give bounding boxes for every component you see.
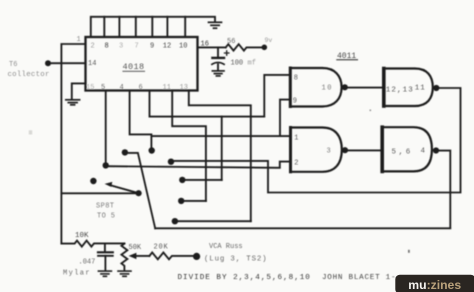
svg-text:1: 1 [294, 135, 298, 143]
IC bottom pin labels 15 5 4 6 11 13 [86, 84, 188, 92]
node switch contact 4 [168, 159, 174, 165]
svg-text:4: 4 [120, 84, 124, 92]
wire U2a output to U2b input [345, 87, 384, 89]
svg-text:12,13: 12,13 [386, 87, 414, 95]
op... gate U2a NAND body [290, 68, 341, 107]
ground symbol below C2 [98, 271, 111, 276]
label 20K [154, 244, 169, 252]
node gate U2d output junction [433, 147, 439, 153]
wire pin 11 to switch contact 6 [172, 91, 206, 201]
svg-text:DIVIDE BY 2,3,4,5,6,8,10: DIVIDE BY 2,3,4,5,6,8,10 [178, 274, 311, 282]
svg-text:TO 5: TO 5 [97, 213, 115, 221]
label SP8T TO 5 [96, 203, 115, 221]
label JOHN BLACET 1- [322, 274, 396, 282]
svg-text:2: 2 [294, 160, 298, 168]
svg-text:13: 13 [180, 84, 188, 92]
svg-text:8: 8 [105, 43, 109, 51]
svg-text:12: 12 [163, 43, 171, 51]
node switch wiper hub [90, 178, 96, 184]
svg-text:20K: 20K [154, 244, 169, 252]
wire pin 16 to resistor [198, 46, 226, 48]
svg-text:4: 4 [421, 148, 426, 156]
svg-text:JOHN BLACET 1-: JOHN BLACET 1- [322, 274, 396, 282]
stray scan marks left edge [29, 130, 32, 134]
potentiometer R3 50K [121, 244, 127, 271]
plus sign of C1 [225, 51, 229, 55]
label 10K [75, 232, 89, 240]
svg-text:mf: mf [248, 60, 256, 68]
wire pin 13 to switch contact 7 [189, 91, 251, 222]
node switch contact 1 [122, 149, 128, 155]
pin 16 label [201, 41, 209, 49]
wire pin 4 branch to gate U2c input 1 [151, 135, 290, 137]
label 100 mf [231, 60, 256, 68]
switch SW1 wiper arm with arrow [136, 190, 142, 196]
wire pin 6 to contact 5 tee and gate U2a input 8 [150, 75, 291, 117]
node switch contact 3 [103, 162, 109, 168]
gate U2b pin labels 12,13 11 [386, 85, 426, 95]
stray scan speck [408, 250, 410, 253]
wire U2d output feedback to switch contact 1 (bottom run) [155, 151, 450, 229]
svg-text:2: 2 [91, 43, 95, 51]
svg-text:collector: collector [8, 71, 50, 79]
pin 14 label [88, 60, 96, 68]
wire contact 3 to gate U2c input 2 [106, 162, 291, 168]
wire pin 4 to switch contact 2 [130, 91, 152, 148]
label 9v [265, 37, 273, 44]
svg-text:VCA Russ: VCA Russ [209, 243, 243, 251]
label DIVIDE BY 2,3,4,5,6,8,10 [178, 274, 311, 282]
label 50K [129, 244, 142, 252]
bus drop wires to top pins [103, 17, 105, 37]
wire wiper to pin-1 rail [61, 192, 138, 194]
svg-text:14: 14 [88, 60, 96, 68]
node 9v supply terminal [262, 45, 268, 51]
node switch contact 6 [178, 198, 184, 204]
wire contact 5 stub [182, 179, 221, 181]
wiper arrow into R3 [133, 255, 149, 257]
resistor R2 10K [61, 241, 124, 247]
wire contact 1 diagonal to bottom feedback run [125, 153, 155, 228]
wire T6 collector to pin 14 [48, 62, 86, 64]
IC top pin labels 2 8 3 7 9 12 10 [91, 43, 188, 51]
svg-text:SP8T: SP8T [96, 203, 114, 211]
svg-text:8: 8 [294, 75, 298, 83]
wire pin 1 to 10K resistor (long left vertical) [61, 44, 85, 244]
wire pin 15 to ground [72, 83, 86, 99]
node switch contact 7 [172, 218, 178, 224]
gate U2b NAND body [384, 69, 433, 107]
node gate U2a output junction [342, 84, 348, 90]
label T6 collector [8, 61, 50, 79]
svg-text:100: 100 [231, 60, 244, 68]
svg-text:T6: T6 [9, 61, 17, 69]
svg-text:mu:zines: mu:zines [408, 278, 461, 292]
label VCA Russ (Lug 3, TS2) [204, 243, 267, 264]
stray scan speck near gate B [370, 110, 372, 112]
node T6 collector terminal [45, 60, 51, 66]
wire gate U2a input 9 to U2c input 1 tee [280, 100, 290, 137]
wire U2c output to U2d input [345, 149, 382, 151]
label 4011 [337, 52, 356, 61]
gate U2a pin labels 8 9 10 [293, 75, 333, 106]
ground bus wire above IC [91, 17, 215, 37]
svg-text:9: 9 [150, 43, 154, 51]
pin 1 label [77, 36, 81, 44]
gate U2d NAND body [382, 127, 432, 171]
svg-text:10: 10 [322, 85, 333, 93]
resistor R1 56 [226, 44, 262, 50]
capacitor C2 .047 Mylar [104, 244, 106, 252]
resistor R4 20K [149, 252, 193, 259]
muzines logo box [395, 275, 474, 292]
svg-text:11: 11 [163, 84, 171, 92]
wire U2b output feedback to switch contact 4 [171, 88, 461, 193]
svg-text:56: 56 [227, 38, 235, 46]
svg-text:Mylar: Mylar [63, 270, 91, 278]
svg-text:3: 3 [119, 43, 123, 51]
gate U2d pin labels 5,6 4 [392, 148, 426, 157]
svg-text:15: 15 [86, 84, 94, 92]
gate U2c pin labels 1 2 3 [294, 135, 331, 168]
svg-text:(Lug 3, TS2): (Lug 3, TS2) [204, 256, 267, 264]
wire pin 5 down to switch contact 3 [105, 91, 107, 163]
capacitor C1 100 mf [217, 47, 219, 56]
svg-text:7: 7 [135, 43, 139, 51]
svg-text:4018: 4018 [123, 62, 145, 72]
svg-text:50K: 50K [129, 244, 142, 252]
node gate U2c output junction [342, 147, 348, 153]
svg-text:1: 1 [77, 36, 81, 44]
label .047 Mylar [63, 259, 95, 278]
gate U2c NAND body [291, 128, 342, 172]
wire contact 6 stub [181, 200, 206, 202]
svg-text:10K: 10K [75, 232, 89, 240]
ground symbol below C1 [212, 71, 224, 76]
ground symbol top right of bus [209, 22, 222, 28]
svg-text:9v: 9v [265, 37, 273, 44]
ground symbol below R3 [118, 271, 131, 276]
svg-text:10: 10 [179, 43, 187, 51]
node gate U2b output junction [433, 85, 439, 91]
label 56 [227, 38, 235, 46]
svg-text:3: 3 [327, 148, 331, 156]
IC U1 4018 body [86, 37, 198, 91]
wire contact 7 stub [175, 220, 251, 222]
node VCA output terminal [193, 253, 200, 260]
ground symbol below pin 15 [66, 100, 80, 105]
svg-text:.047: .047 [79, 259, 96, 267]
svg-text:5,6: 5,6 [392, 149, 413, 157]
svg-text:9: 9 [293, 98, 297, 106]
node switch contact 2 [149, 147, 155, 153]
IC U1 label 4018 [123, 62, 145, 72]
svg-text:11: 11 [415, 85, 426, 93]
node switch contact 5 [179, 177, 185, 183]
svg-text:5: 5 [101, 84, 105, 92]
svg-text:6: 6 [139, 84, 143, 92]
